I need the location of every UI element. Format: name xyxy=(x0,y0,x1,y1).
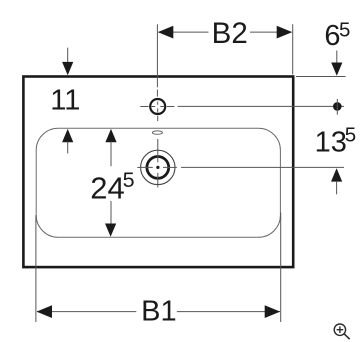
dimension B1 right arrowhead xyxy=(265,305,281,318)
zoom magnifier plus horizontal xyxy=(337,329,344,331)
dimension 11 down arrow stem xyxy=(67,48,69,64)
dimension B1 left arrowhead xyxy=(37,305,53,318)
svg-text:B2: B2 xyxy=(212,17,248,50)
zoom magnifier plus vertical xyxy=(339,326,341,333)
svg-text:24: 24 xyxy=(90,171,124,206)
dimension 24.5 up arrowhead xyxy=(105,129,116,142)
dimension B2 right arrowhead xyxy=(277,26,293,39)
dimension 24.5 down arrowhead xyxy=(105,224,116,237)
svg-text:5: 5 xyxy=(123,168,135,192)
dimension B1 line right segment xyxy=(177,311,280,313)
dimension 13.5 up arrowhead xyxy=(331,168,342,181)
dimension B2 left arrowhead xyxy=(158,26,174,39)
dimension 6.5 down arrowhead xyxy=(331,63,342,76)
dimension 13.5 arrow stem xyxy=(336,181,338,194)
dimension 6.5 top edge extension line xyxy=(296,76,346,78)
drain height line to right edge xyxy=(181,166,344,168)
dimension 24.5 upper stem xyxy=(110,142,112,167)
dimension B2 line right segment xyxy=(250,31,292,33)
drain hole center dot xyxy=(156,166,159,169)
overflow slot ellipse xyxy=(152,131,162,134)
svg-text:13: 13 xyxy=(315,127,347,159)
faucet height dot vertical tick xyxy=(336,99,338,115)
dimension B1 left extension line xyxy=(35,215,37,322)
drain hole vertical centerline segments xyxy=(157,139,159,187)
zoom magnifier icon circle xyxy=(334,324,345,335)
dimension 11 up arrowhead xyxy=(62,129,73,142)
faucet hole vertical centerline segments xyxy=(156,90,158,122)
dimension 6.5 arrow stem xyxy=(336,51,338,66)
svg-text:5: 5 xyxy=(345,123,356,146)
dimension B2 line left segment xyxy=(159,31,209,33)
faucet height line to right edge xyxy=(178,105,344,107)
drain hole outer circle xyxy=(141,150,175,184)
drain hole inner circle xyxy=(147,157,169,179)
faucet hole horizontal centerline segments xyxy=(140,106,174,108)
dimension B1 line left segment xyxy=(37,311,136,313)
dimension 11 down arrowhead xyxy=(62,62,73,75)
washbasin outer rectangle xyxy=(23,77,293,268)
basin inner bowl outline xyxy=(36,128,280,237)
dimension B1 right extension line xyxy=(280,213,282,323)
svg-text:B1: B1 xyxy=(141,296,176,328)
svg-text:11: 11 xyxy=(50,85,80,117)
zoom magnifier handle xyxy=(344,334,350,339)
drain hole horizontal centerline segments xyxy=(137,166,177,168)
dimension B2 right extension line xyxy=(292,24,294,74)
dimension B2 left extension line (from faucet hole up) xyxy=(156,24,158,87)
faucet hole circle xyxy=(150,99,165,114)
svg-text:5: 5 xyxy=(339,19,350,42)
dimension 24.5 lower stem xyxy=(110,201,112,224)
faucet height line end dot xyxy=(333,102,342,111)
dimension 11 up arrow stem xyxy=(67,142,69,154)
